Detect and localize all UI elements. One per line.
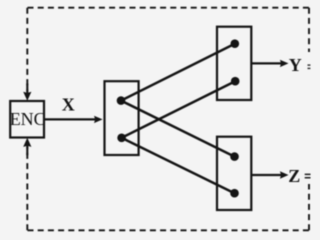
node B2 xyxy=(230,189,239,198)
dashed left edge lower segment (feedback into ENC bottom) xyxy=(26,147,28,231)
wire M2-T2 xyxy=(122,81,236,138)
dashed outer box: right edge upper segment xyxy=(308,8,310,52)
wire X: ENC to middle box xyxy=(44,118,96,120)
node T1 xyxy=(231,39,240,48)
svg-text:X: X xyxy=(62,95,75,115)
svg-text:Z: Z xyxy=(288,166,300,186)
arrowhead Z xyxy=(280,171,289,178)
top-right box Q xyxy=(217,27,251,100)
node B1 xyxy=(230,152,239,161)
ENC box xyxy=(10,101,44,138)
svg-text:Y: Y xyxy=(289,55,302,75)
bottom-right box R xyxy=(217,137,251,210)
arrowhead into ENC bottom (pointing up) xyxy=(23,138,31,147)
node M1 xyxy=(117,96,126,105)
equals after Z xyxy=(305,174,311,176)
wire Y out xyxy=(251,62,282,64)
middle box P xyxy=(105,81,139,155)
equals after Y xyxy=(308,64,311,65)
node T2 xyxy=(231,77,240,86)
arrowhead into ENC top (pointing down) xyxy=(23,92,31,101)
dashed outer box: right edge lower segment xyxy=(308,184,310,230)
wire Z out xyxy=(251,174,282,176)
wire M2-B2 xyxy=(122,138,235,193)
node M2 xyxy=(117,134,126,143)
svg-text:ENC: ENC xyxy=(10,109,46,129)
dashed outer box: bottom edge xyxy=(28,229,310,231)
dashed outer box: top edge xyxy=(28,7,310,9)
wire M1-B1 xyxy=(121,101,235,157)
wire M1-T1 xyxy=(121,44,235,101)
arrowhead X at middle box xyxy=(94,116,103,123)
dashed left edge upper segment (feedback into ENC top) xyxy=(26,8,28,92)
arrowhead Y xyxy=(280,60,289,67)
